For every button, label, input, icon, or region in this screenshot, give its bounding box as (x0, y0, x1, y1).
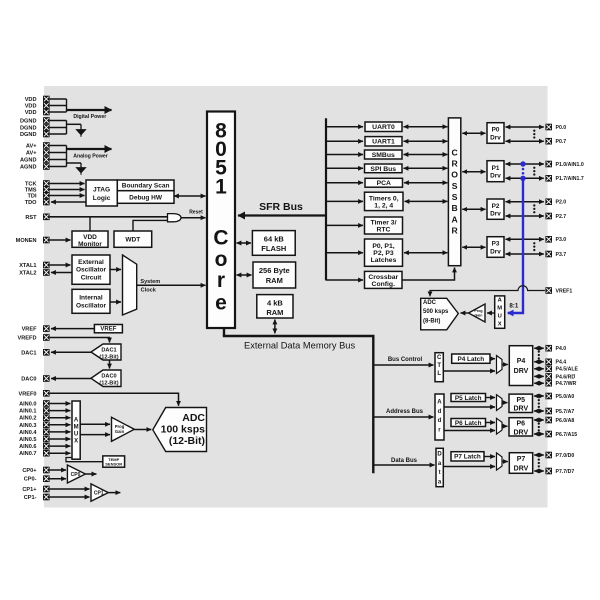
svg-text:Drv: Drv (490, 172, 501, 179)
pin XTAL1 (left) (19, 262, 49, 269)
svg-text:DRV: DRV (513, 406, 528, 413)
svg-text:RTC: RTC (377, 226, 391, 233)
wire mux to P6 DRV (502, 425, 508, 427)
digital ground symbol (76, 124, 85, 137)
block VDD Monitor (72, 231, 108, 248)
svg-text:DAC0: DAC0 (21, 376, 36, 382)
wire VDD monitor to reset line (89, 217, 91, 231)
svg-text:AIN0.2: AIN0.2 (19, 416, 36, 422)
pin AIN0.5 (left) (19, 436, 50, 443)
svg-text:VREF: VREF (22, 327, 38, 333)
svg-text:Internal: Internal (79, 295, 103, 302)
wire SFR bus to PCA (326, 182, 363, 184)
svg-text:P7.0/D0: P7.0/D0 (556, 453, 575, 459)
pin VREFD (left) (18, 334, 50, 341)
block CTL (435, 353, 443, 382)
mux P7 output mux (497, 453, 503, 470)
amux AMUX (ADC0 input mux) (72, 401, 80, 459)
pin P4.5/ALE (right) (545, 366, 578, 373)
wire P6 DRV to pin P6.0/A8 (534, 419, 544, 421)
svg-text:P7 Latch: P7 Latch (454, 454, 481, 461)
svg-text:RST: RST (25, 215, 37, 221)
svg-text:P4.7/WR: P4.7/WR (556, 381, 577, 387)
svg-text:External: External (78, 259, 104, 266)
svg-text:Digital Power: Digital Power (73, 114, 106, 120)
svg-text:Drv: Drv (490, 134, 501, 141)
svg-text:P1: P1 (492, 165, 500, 172)
wire CTL to mux (443, 370, 495, 372)
svg-text:VDD: VDD (83, 234, 97, 241)
wire SFR bus to UART0 (326, 126, 363, 128)
svg-text:C: C (437, 355, 442, 361)
svg-text:P6: P6 (517, 420, 526, 427)
pin DGND (left) (20, 131, 50, 138)
pin P3.7 (right) (545, 251, 566, 258)
pin MONEN (left) (16, 237, 50, 244)
wire CP0+ input (50, 469, 66, 471)
svg-text:VDD: VDD (25, 97, 37, 103)
svg-text:DGND: DGND (20, 118, 36, 124)
wire VDD bundle to digital power rail (50, 99, 67, 112)
svg-text:VDD: VDD (25, 110, 37, 116)
svg-text:RAM: RAM (266, 308, 283, 317)
svg-text:C: C (451, 147, 457, 157)
wire VREF0 to ADC (50, 393, 179, 406)
svg-text:R: R (451, 159, 458, 169)
wire WDT to reset gate (133, 220, 168, 231)
svg-text:Clock: Clock (141, 288, 157, 294)
svg-text:8:1: 8:1 (509, 302, 519, 309)
svg-text:Oscillator: Oscillator (76, 303, 106, 310)
svg-text:SENSOR: SENSOR (105, 462, 122, 467)
svg-text:P1.7/AIN1.7: P1.7/AIN1.7 (556, 176, 584, 182)
svg-text:UART0: UART0 (372, 124, 395, 131)
label Analog Power (73, 153, 108, 159)
svg-text:Circuit: Circuit (81, 274, 102, 281)
label Data Bus (391, 458, 418, 464)
svg-text:Data Bus: Data Bus (391, 458, 418, 464)
block Timers 0 1 2 4 (365, 192, 404, 210)
svg-text:VREF0: VREF0 (18, 391, 36, 397)
svg-text:DAC0: DAC0 (101, 373, 116, 379)
wire CP1 output (108, 492, 120, 494)
pin VDD (left) (25, 102, 50, 109)
svg-text:P7: P7 (517, 456, 526, 463)
svg-text:AIN0.7: AIN0.7 (19, 451, 36, 457)
svg-text:P6 Latch: P6 Latch (455, 420, 482, 427)
svg-text:AGND: AGND (20, 157, 36, 163)
block Timer 3 RTC (365, 217, 403, 234)
block Data (436, 448, 443, 486)
ellipsis dots P0 (533, 130, 535, 139)
wire UART1 to crossbar (404, 140, 448, 142)
pin AGND (left) (20, 156, 50, 163)
wire internal osc to clock mux (110, 301, 121, 303)
adc ADC0 100ksps 12-bit (153, 408, 207, 452)
blue wire P1 pins to ADC1 AMUX (508, 178, 523, 313)
pin P7.7/D7 (right) (545, 468, 574, 475)
svg-text:CP1+: CP1+ (22, 487, 37, 493)
svg-text:Monitor: Monitor (78, 241, 102, 248)
wire AIN0.7 to AMUX (50, 452, 71, 454)
pin P5.0/A0 (right) (545, 393, 574, 400)
block 64 kB FLASH (252, 231, 295, 256)
svg-text:(12-Bit): (12-Bit) (99, 380, 118, 386)
analog power arrow (67, 148, 112, 150)
wire external osc to clock mux (110, 269, 121, 271)
svg-text:CP0: CP0 (71, 472, 81, 478)
label 8:1 (509, 302, 519, 309)
ellipsis dots P1 (533, 167, 535, 176)
svg-text:VDD: VDD (25, 103, 37, 109)
svg-text:FLASH: FLASH (261, 244, 286, 253)
wire CP1+ input (50, 488, 90, 490)
blue dotted segment P1.0 to P1.7 (522, 168, 525, 175)
wire PCA to crossbar (404, 182, 447, 184)
pin P4.6/RD (right) (545, 373, 575, 380)
svg-text:VREF: VREF (100, 327, 116, 333)
svg-text:4 kB: 4 kB (267, 298, 283, 307)
bus SFR vertical bus (325, 118, 327, 280)
ellipsis dots P7 (538, 458, 540, 467)
svg-text:AIN0.6: AIN0.6 (19, 444, 36, 450)
wire core to 256B RAM (237, 274, 252, 276)
wire crossbar to P1 driver (462, 171, 485, 173)
wire P4 DRV to pin P4.4 (534, 361, 544, 363)
svg-text:P5: P5 (517, 397, 526, 404)
svg-text:P6.7/A15: P6.7/A15 (556, 432, 578, 438)
wire P5 latch to mux (486, 397, 496, 399)
wire AIN0.6 to AMUX (50, 445, 71, 447)
svg-text:ADC: ADC (182, 412, 205, 424)
wire DAC0 output to pin (51, 378, 91, 380)
svg-text:R: R (451, 225, 458, 235)
block CROSSBAR (448, 118, 460, 266)
wire P4 latch to mux (490, 358, 495, 360)
wire mux to P4 DRV (502, 364, 508, 366)
svg-text:SMBus: SMBus (372, 152, 395, 159)
pin VDD (left) (25, 109, 50, 116)
wire SFR bus to Timers 0 1 2 4 (326, 200, 363, 202)
svg-text:C: C (213, 226, 228, 249)
wire CP0 output (85, 473, 96, 475)
pin P0.7 (right) (545, 138, 566, 145)
wire system clock to core (137, 284, 206, 286)
block SMBus (365, 150, 403, 159)
block External Oscillator Circuit (72, 255, 110, 284)
wire AMUX to PGA (lower) (80, 434, 110, 436)
wire SFR bus to Timer 3 RTC (326, 224, 363, 226)
pin AGND (left) (20, 163, 50, 170)
block P0 Drv (487, 123, 504, 144)
svg-text:CP0+: CP0+ (22, 468, 37, 474)
wire P4 DRV to pin P4.5/ALE (534, 368, 544, 370)
svg-text:L: L (437, 371, 441, 377)
wire SFR bus to P0-P3 latches (326, 252, 363, 254)
pin DAC0 (left) (21, 375, 49, 382)
svg-text:UART1: UART1 (372, 139, 395, 146)
svg-text:Reset: Reset (189, 209, 203, 215)
svg-text:XTAL1: XTAL1 (19, 263, 36, 269)
svg-text:VREFD: VREFD (18, 335, 37, 341)
svg-text:VREF1: VREF1 (556, 288, 573, 294)
svg-text:MONEN: MONEN (16, 238, 37, 244)
pin VREF (left) (22, 325, 50, 332)
wire VREF1 to ADC1 (with hop over blue wire) (430, 286, 545, 297)
pin XTAL2 (left) (19, 269, 49, 276)
svg-text:P0: P0 (492, 127, 500, 134)
pin P2.0 (right) (545, 198, 566, 205)
wire SFR bus to SPI Bus (326, 167, 363, 169)
wire AIN0.3 to AMUX (50, 424, 71, 426)
wire mux to P7 DRV (502, 461, 508, 463)
wire PGA to ADC0 (134, 429, 151, 431)
svg-text:P5 Latch: P5 Latch (455, 395, 482, 402)
block Debug HW (117, 191, 174, 204)
wire AIN0.1 to AMUX (50, 410, 71, 412)
wire AIN0.0 to AMUX (50, 403, 71, 405)
svg-text:M: M (74, 424, 79, 430)
svg-text:DGND: DGND (20, 132, 36, 138)
svg-text:Drv: Drv (490, 248, 501, 255)
pin TMS (left) (25, 186, 50, 193)
svg-text:Bus Control: Bus Control (388, 357, 423, 363)
svg-text:P0, P1,: P0, P1, (372, 243, 394, 250)
svg-text:PCA: PCA (377, 180, 391, 187)
svg-text:P3.0: P3.0 (556, 237, 567, 243)
block SPI Bus (365, 164, 403, 173)
wire core to external memory bus (223, 328, 225, 336)
block PCA (365, 178, 403, 187)
bus External Data Memory Bus (223, 335, 375, 473)
block P7 Latch (451, 452, 484, 461)
pin TCK (left) (25, 180, 50, 187)
wire CP0- input (50, 478, 66, 480)
block P2 Drv (487, 199, 504, 219)
comparator CP1 (91, 484, 108, 501)
wire SFR bus to UART1 (326, 140, 363, 142)
ellipsis dots P5 (538, 399, 540, 408)
svg-text:A: A (451, 214, 457, 224)
wire P5 DRV to pin P5.7/A7 (534, 410, 544, 412)
block JTAG Logic (86, 180, 117, 206)
label SFR Bus (259, 201, 303, 213)
wire P4 DRV to pin P4.7/WR (534, 382, 544, 384)
wire P0-P3 latches to crossbar (404, 252, 447, 254)
wire P6 latch to mux (486, 422, 496, 424)
block Addr (435, 394, 444, 440)
wire P7 DRV to pin P7.7/D7 (534, 470, 544, 472)
svg-text:P4: P4 (517, 358, 526, 365)
block Internal Oscillator (72, 289, 110, 313)
svg-text:(12-Bit): (12-Bit) (169, 435, 205, 447)
amplifier PGA2 (prog gain) (469, 304, 486, 322)
wire P3 driver to pin P3.0 (506, 238, 544, 240)
chip body (grey die area) (44, 86, 548, 508)
svg-text:M: M (497, 305, 502, 311)
wire 4kB RAM to external memory bus (274, 320, 276, 334)
wire crossbar to P3 driver (462, 246, 485, 248)
mux P6 output mux (497, 418, 503, 434)
wire MONEN to VDD monitor (50, 239, 71, 241)
block temp sensor (103, 456, 125, 467)
bus SFR Bus line (238, 214, 326, 216)
pin P4.4 (right) (545, 359, 566, 366)
wire P4 DRV to pin P4.0 (534, 347, 544, 349)
svg-text:P2: P2 (492, 203, 500, 210)
svg-text:DAC1: DAC1 (101, 347, 116, 353)
wire SMBus to crossbar (404, 154, 448, 156)
pin TDO (left) (25, 199, 50, 206)
wire P7 latch to mux (484, 456, 495, 458)
svg-text:d: d (438, 418, 442, 424)
wire Addr to P5 mux (444, 406, 495, 408)
pin P4.0 (right) (545, 345, 566, 352)
svg-text:P1.0/AIN1.0: P1.0/AIN1.0 (556, 162, 584, 168)
svg-text:P3: P3 (492, 241, 500, 248)
svg-text:Debug HW: Debug HW (129, 194, 163, 201)
svg-text:(8-Bit): (8-Bit) (423, 319, 440, 325)
svg-text:S: S (452, 181, 458, 191)
block WDT (114, 231, 152, 247)
pin P1.0/AIN1.0 (right) (545, 161, 583, 168)
svg-text:AIN0.1: AIN0.1 (19, 409, 36, 415)
svg-text:r: r (217, 269, 225, 292)
reset gate (168, 214, 182, 222)
svg-text:TDO: TDO (25, 200, 37, 206)
svg-text:D: D (437, 452, 442, 458)
node blue junction on P1.0 wire (520, 161, 525, 166)
pin VDD (left) (25, 96, 50, 103)
svg-text:P2, P3: P2, P3 (373, 250, 394, 257)
svg-text:64 kB: 64 kB (264, 234, 285, 243)
svg-text:Gain: Gain (475, 314, 483, 318)
pin P2.7 (right) (545, 213, 566, 220)
svg-text:DRV: DRV (514, 368, 529, 375)
clock mux (123, 255, 137, 315)
dac DAC0 (91, 370, 121, 387)
svg-text:RAM: RAM (266, 276, 283, 285)
wire temp sensor to AMUX (66, 458, 103, 462)
svg-text:Logic: Logic (93, 195, 111, 202)
wire RST to reset gate (50, 216, 168, 218)
svg-text:TDI: TDI (27, 193, 36, 199)
svg-text:P4.6/RD: P4.6/RD (556, 374, 576, 380)
wire XTAL2 from external oscillator (51, 272, 72, 274)
wire data bus branch (373, 464, 434, 466)
pin RST (left) (25, 214, 49, 221)
amplifier PGA (prog gain) (112, 417, 135, 441)
block Crossbar Config (365, 271, 403, 288)
wire Debug HW to core (174, 195, 206, 197)
wire P0 driver to pin P0.7 (506, 140, 544, 142)
pin CP1+ (left) (22, 486, 49, 493)
pin DGND (left) (20, 124, 50, 131)
svg-text:External Data Memory Bus: External Data Memory Bus (244, 340, 355, 350)
dac DAC1 (91, 344, 121, 360)
wire P1 driver to pin P1.7/AIN1.7 (506, 177, 544, 179)
svg-text:Prog: Prog (474, 309, 482, 313)
svg-text:Address Bus: Address Bus (386, 409, 424, 415)
wire P0 driver to pin P0.0 (506, 126, 544, 128)
pin P4.7/WR (right) (545, 380, 576, 387)
wire TDI to JTAG logic (50, 195, 85, 197)
ellipsis dots P4 (538, 350, 540, 359)
svg-text:ADC: ADC (423, 300, 437, 306)
svg-text:WDT: WDT (125, 237, 140, 244)
svg-text:CP1-: CP1- (24, 495, 37, 501)
wire VREFD to DACs (50, 338, 110, 343)
pin P3.0 (right) (545, 236, 566, 243)
wire SFR bus to SMBus (326, 154, 363, 156)
svg-text:B: B (451, 203, 457, 213)
pin CP0- (left) (24, 475, 50, 482)
pin P6.7/A15 (right) (545, 431, 577, 438)
pin AV+ (left) (26, 149, 50, 156)
wire DAC1 to DAC0 (109, 360, 111, 369)
label External Data Memory Bus (244, 340, 355, 350)
svg-text:CP0-: CP0- (24, 477, 37, 483)
wire SFR bus to Crossbar Config (326, 279, 363, 281)
svg-text:DAC1: DAC1 (21, 350, 36, 356)
svg-text:d: d (438, 409, 442, 415)
block 4 kB RAM (257, 295, 293, 318)
mux P5 output mux (497, 395, 503, 411)
analog ground symbol (76, 163, 85, 175)
wire P1 driver to pin P1.0/AIN1.0 (506, 163, 544, 165)
svg-text:(12-Bit): (12-Bit) (99, 354, 118, 360)
svg-text:DRV: DRV (513, 429, 528, 436)
pin P5.7/A7 (right) (545, 408, 574, 415)
wire VREF output to pin (51, 328, 94, 330)
amux AMUX 8:1 (ADC1 input mux) (495, 296, 505, 328)
ellipsis dots P2 (533, 204, 535, 213)
wire core to FLASH (237, 242, 251, 244)
wire P3 driver to pin P3.7 (506, 253, 544, 255)
svg-text:P2.0: P2.0 (556, 200, 567, 206)
ellipsis dots P6 (538, 422, 540, 431)
svg-text:Latches: Latches (371, 257, 397, 264)
block P3 Drv (487, 237, 504, 258)
wire Addr to P6 mux (444, 430, 495, 432)
svg-text:Gain: Gain (115, 429, 125, 434)
pin P0.0 (right) (545, 124, 566, 131)
digital power arrow (67, 109, 112, 111)
svg-text:100 ksps: 100 ksps (161, 423, 206, 435)
pin AIN0.0 (left) (19, 400, 50, 407)
pin CP0+ (left) (22, 467, 49, 474)
node blue junction on P1.7 wire (520, 176, 525, 181)
wire UART0 to crossbar (404, 126, 448, 128)
svg-text:DGND: DGND (20, 125, 36, 131)
svg-text:X: X (498, 321, 502, 327)
wire AIN0.4 to AMUX (50, 431, 71, 433)
svg-text:P0.7: P0.7 (556, 139, 567, 145)
svg-text:Timers 0,: Timers 0, (369, 195, 399, 202)
wire AV+ bundle to analog power rail (50, 146, 67, 153)
svg-text:P6.0/A8: P6.0/A8 (556, 418, 575, 424)
svg-text:1: 1 (215, 175, 227, 198)
svg-text:Boundary Scan: Boundary Scan (122, 183, 170, 190)
svg-text:AGND: AGND (20, 164, 36, 170)
svg-text:P7.7/D7: P7.7/D7 (556, 469, 575, 475)
pin P1.7/AIN1.7 (right) (545, 175, 583, 182)
svg-text:P4.0: P4.0 (556, 346, 567, 352)
svg-text:SFR Bus: SFR Bus (259, 201, 303, 213)
svg-text:Analog Power: Analog Power (73, 153, 108, 159)
svg-text:CP1: CP1 (94, 491, 104, 497)
svg-text:A: A (437, 399, 442, 405)
